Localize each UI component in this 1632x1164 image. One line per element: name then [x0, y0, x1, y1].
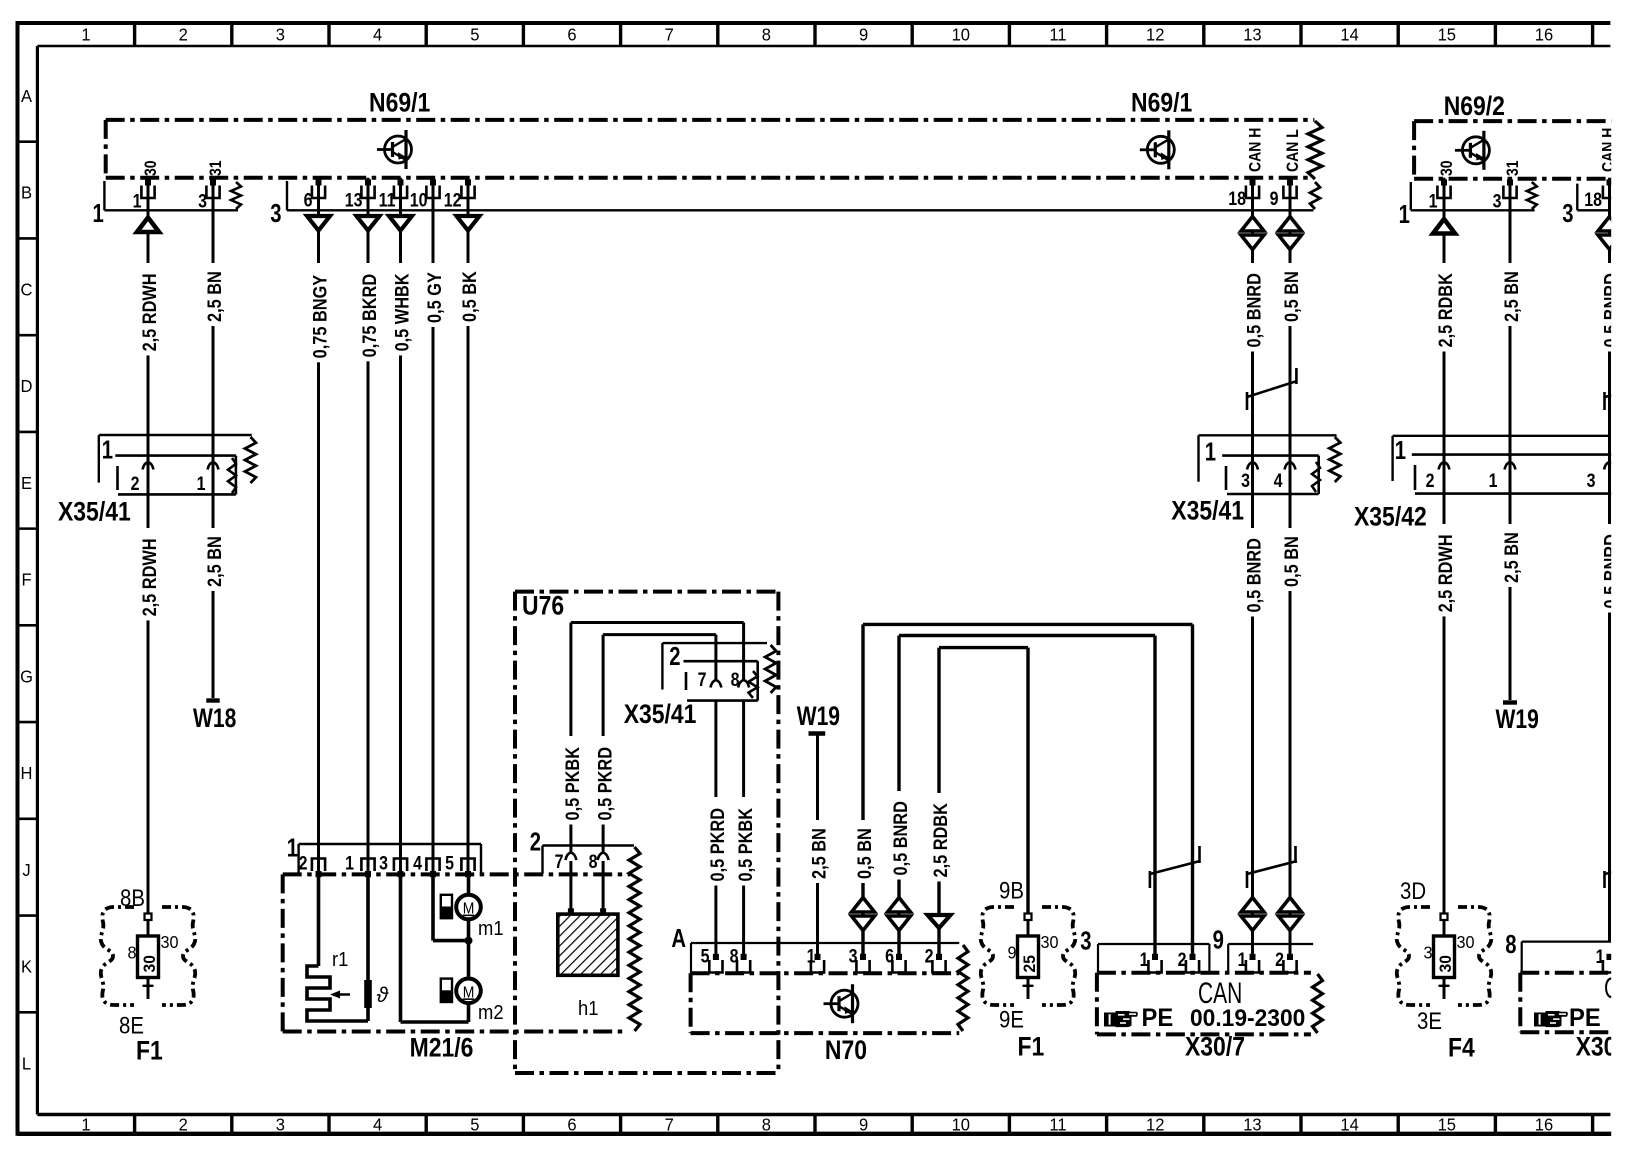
- svg-text:2,5 RDBK: 2,5 RDBK: [930, 803, 951, 878]
- ground W19 (right): [1503, 700, 1517, 704]
- fuse F1 25A: [1025, 914, 1032, 921]
- connector bracket 2 at U76 bottom: [543, 844, 635, 846]
- svg-text:11: 11: [1049, 24, 1066, 45]
- svg-text:3: 3: [1423, 943, 1432, 963]
- svg-text:30: 30: [1436, 955, 1455, 972]
- connector bracket 8 of X30 right: [1522, 940, 1611, 942]
- fuse F4 30A: [1441, 914, 1448, 921]
- direction arrow up on wire 30 of N69/2: [1433, 219, 1455, 234]
- svg-text:18: 18: [1228, 188, 1246, 210]
- fuse F1 30A: [145, 914, 152, 921]
- pin 2 contact of X35/42: [1439, 462, 1450, 470]
- svg-text:12: 12: [444, 189, 462, 211]
- svg-text:14: 14: [1340, 24, 1359, 45]
- svg-text:G: G: [20, 666, 33, 687]
- wire pin7 down to N70 pin5: [714, 701, 717, 960]
- svg-text:X30/7: X30/7: [1185, 1032, 1245, 1062]
- svg-text:F: F: [21, 569, 31, 590]
- svg-text:8: 8: [1505, 930, 1516, 959]
- zigzag at N70 right edge: [958, 945, 968, 1031]
- bidirectional arrows on 0,5 BNRD: [888, 898, 911, 913]
- zigzag at X35/41 right bracket: [1329, 437, 1340, 482]
- direction arrow down on 2,5 RDBK: [928, 915, 951, 928]
- svg-text:16: 16: [1535, 24, 1553, 45]
- svg-text:X35/42: X35/42: [1354, 502, 1427, 532]
- connector X35/41 (2) body: [684, 660, 758, 663]
- svg-text:0,5 WHBK: 0,5 WHBK: [392, 273, 413, 351]
- pin 2 socket of X30/7: [1186, 960, 1199, 973]
- svg-text:m1: m1: [478, 918, 504, 940]
- wire CAN L pin9 N69/1 to X30/7 (0,5 BN): [1289, 178, 1292, 960]
- svg-text:14: 14: [1340, 1114, 1359, 1135]
- svg-text:U76: U76: [522, 591, 564, 621]
- svg-text:D: D: [21, 376, 33, 397]
- transistor symbol in N69/1 right: [1140, 130, 1175, 169]
- svg-text:3: 3: [276, 1114, 285, 1135]
- wire pin11 N69/1 to M21/6 pin3 (0,5 WHBK): [399, 178, 402, 875]
- twisted pair mark on CAN wires below N69/1: [1246, 392, 1249, 410]
- resistor/shield zigzag at N69/1 right edge: [1308, 121, 1322, 179]
- page cut mask: [1611, 0, 1632, 1164]
- svg-text:31: 31: [207, 160, 225, 176]
- pin 3 socket of N70: [856, 960, 869, 973]
- svg-text:3: 3: [849, 945, 858, 967]
- pin 3 socket of N69/1: [206, 186, 219, 199]
- zigzag inside X35/41 right: [1312, 462, 1320, 492]
- bidirectional arrows on 0,5 BN: [852, 898, 875, 913]
- svg-text:J: J: [22, 859, 30, 880]
- svg-text:7: 7: [665, 24, 674, 45]
- svg-text:1: 1: [81, 24, 90, 45]
- svg-text:ϑ: ϑ: [377, 984, 390, 1007]
- svg-text:31: 31: [1504, 160, 1522, 176]
- twisted pair mark right edge (upper): [1603, 392, 1606, 410]
- pin 12 socket of N69/1: [461, 186, 474, 199]
- svg-text:15: 15: [1438, 24, 1456, 45]
- pin 3 socket of M21/6: [394, 859, 407, 872]
- X30/7 dash-dot box: [1097, 971, 1311, 975]
- connector bracket 1 of M21/6: [299, 843, 481, 845]
- wire pin5 to m1 top: [467, 871, 471, 895]
- svg-text:2,5 RDWH: 2,5 RDWH: [1435, 534, 1456, 612]
- svg-text:3E: 3E: [1417, 1007, 1442, 1034]
- svg-text:F4: F4: [1448, 1033, 1475, 1063]
- twisted pair mark on CAN wires to X30/7 conn 9: [1246, 871, 1249, 888]
- wire pin13 N69/1 to M21/6 pin1 (0,75 BKRD): [367, 178, 370, 875]
- direction arrow down pin 11: [389, 216, 412, 231]
- pin 18 socket of N69/2: [1603, 186, 1616, 199]
- wire down to U76 pin7 (0,5 PKBK): [569, 623, 572, 853]
- svg-text:5: 5: [445, 852, 454, 874]
- svg-text:h1: h1: [578, 998, 598, 1020]
- svg-text:1: 1: [1395, 436, 1406, 465]
- svg-text:30: 30: [1457, 932, 1475, 952]
- svg-text:3: 3: [1587, 470, 1596, 492]
- svg-text:9: 9: [1213, 925, 1224, 954]
- svg-text:2,5 BN: 2,5 BN: [204, 271, 225, 322]
- pin 6 socket of N70: [892, 960, 905, 973]
- svg-text:18: 18: [1584, 189, 1602, 211]
- pin 5 socket of M21/6: [461, 859, 474, 872]
- arrow pointing left (adjustment): [333, 993, 350, 996]
- transistor symbol in N69/2: [1455, 131, 1490, 170]
- svg-text:1: 1: [1429, 190, 1438, 212]
- connector bracket 3 of X30/7: [1098, 943, 1209, 945]
- svg-text:F1: F1: [136, 1036, 163, 1066]
- svg-text:N69/1: N69/1: [1131, 88, 1192, 118]
- connector X35/41 (left) body: [115, 454, 236, 457]
- pin 3 contact: [1247, 462, 1258, 470]
- svg-text:8: 8: [730, 945, 739, 967]
- svg-text:3: 3: [276, 24, 285, 45]
- connector X35/41 (2) bracket 2: [661, 643, 663, 689]
- svg-text:11: 11: [1049, 1114, 1066, 1135]
- svg-text:B: B: [21, 182, 32, 203]
- left ruler row dividers: [18, 140, 38, 143]
- motor unit M21/6 dash-dot box (shared with heater sub-box): [283, 872, 630, 876]
- svg-text:9: 9: [1270, 188, 1279, 210]
- pin 1 socket of N69/2: [1437, 186, 1450, 199]
- svg-text:1: 1: [133, 190, 142, 212]
- connector X35/42 body: [1412, 453, 1612, 456]
- svg-text:0,5 BN: 0,5 BN: [854, 828, 875, 879]
- svg-text:2: 2: [299, 852, 308, 874]
- svg-text:2: 2: [925, 945, 934, 967]
- svg-text:2: 2: [179, 24, 188, 45]
- wire pin12 N69/1 to M21/6 pin5 (0,5 BK): [467, 178, 470, 875]
- svg-text:9: 9: [1007, 943, 1016, 963]
- svg-text:4: 4: [413, 852, 422, 874]
- svg-text:13: 13: [345, 189, 363, 211]
- svg-text:9: 9: [859, 24, 868, 45]
- wire pin4 to junction between m1/m2: [431, 871, 435, 941]
- svg-text:1: 1: [197, 473, 206, 495]
- svg-text:0,5 BNRD: 0,5 BNRD: [1244, 273, 1265, 348]
- svg-text:M: M: [463, 901, 475, 918]
- motor m2: [456, 979, 481, 1004]
- connector bracket 9 of X30/7: [1228, 943, 1313, 945]
- svg-text:F1: F1: [1018, 1032, 1045, 1062]
- svg-text:M: M: [463, 985, 475, 1002]
- direction arrow down pin 13: [357, 216, 380, 231]
- direction arrow down pin 12: [457, 216, 480, 231]
- svg-text:7: 7: [698, 669, 707, 691]
- connector bracket A of N70: [691, 942, 959, 944]
- pin 13 socket of N69/1: [361, 186, 374, 199]
- svg-text:4: 4: [373, 24, 383, 45]
- zigzag at N69/2 bracket 1: [1527, 182, 1537, 209]
- svg-text:9: 9: [859, 1114, 868, 1135]
- svg-text:M21/6: M21/6: [410, 1033, 474, 1063]
- small zigzag at connector bracket right end: [1310, 182, 1320, 209]
- pin 2 socket of N70: [932, 960, 945, 973]
- transistor symbol in N69/1 left: [377, 130, 412, 169]
- svg-text:0,5 BK: 0,5 BK: [459, 271, 480, 322]
- pin 2 contact of X35/41: [143, 462, 154, 470]
- ground W18: [206, 698, 219, 702]
- zigzag inside X35/41 (2): [749, 671, 758, 698]
- wire down to X35/41 (2) pin8: [742, 623, 745, 681]
- bidirectional connector arrows CAN L: [1279, 217, 1302, 232]
- wire pin1 N69/1 down to fuse F1 (2,5 RDWH): [147, 178, 150, 914]
- svg-text:0,5 PKRD: 0,5 PKRD: [707, 808, 728, 882]
- svg-text:1: 1: [102, 435, 113, 464]
- svg-text:5: 5: [470, 1114, 479, 1135]
- pin 5 socket of N70: [709, 960, 722, 973]
- tall zigzag right of h1: [629, 847, 640, 1031]
- pin 4 socket of M21/6: [426, 859, 439, 872]
- pin 7 contact of U76: [565, 853, 576, 861]
- svg-text:A: A: [671, 924, 686, 953]
- svg-text:3D: 3D: [1400, 877, 1426, 904]
- twisted pair mark right edge (lower): [1603, 871, 1606, 888]
- control module N69/1 (dash-dot box): [106, 118, 1315, 122]
- svg-text:11: 11: [379, 189, 396, 211]
- svg-text:5: 5: [470, 24, 479, 45]
- svg-text:X35/41: X35/41: [58, 497, 131, 527]
- svg-text:1: 1: [1205, 437, 1216, 466]
- svg-text:2: 2: [530, 827, 541, 856]
- svg-text:0,5 PKBK: 0,5 PKBK: [735, 808, 756, 882]
- svg-text:1: 1: [1238, 949, 1247, 971]
- svg-text:2: 2: [1178, 949, 1187, 971]
- svg-text:L: L: [22, 1053, 32, 1074]
- nested connection wires from N70 to X30/7 and F1: [863, 623, 1193, 626]
- svg-text:W19: W19: [1496, 705, 1539, 735]
- pin 3 socket of N69/2: [1503, 186, 1516, 199]
- pin 1 socket of M21/6: [361, 859, 374, 872]
- svg-text:6: 6: [567, 24, 576, 45]
- svg-text:6: 6: [567, 1114, 576, 1135]
- wire CAN H pin18 N69/1 to X30/7 (0,5 BNRD): [1251, 178, 1254, 960]
- connector X35/41 (right) body: [1222, 454, 1319, 457]
- svg-text:2: 2: [179, 1114, 188, 1135]
- wire pin8 down to N70 pin8: [742, 701, 745, 960]
- zigzag at X30/7 right edge: [1313, 974, 1323, 1033]
- wire pin3 to m2 bottom: [399, 871, 403, 1022]
- svg-text:N69/2: N69/2: [1444, 91, 1505, 121]
- direction arrow down pin 6: [307, 216, 330, 231]
- junction node: [465, 937, 473, 945]
- svg-text:1: 1: [81, 1114, 90, 1135]
- svg-text:E: E: [21, 472, 32, 493]
- zigzag inside X35/41 left: [228, 458, 236, 493]
- pin 3 contact of X35/42: [1604, 462, 1615, 470]
- pin 7 contact of X35/41 (2): [710, 680, 721, 688]
- svg-text:30: 30: [161, 932, 179, 952]
- svg-text:13: 13: [1243, 24, 1261, 45]
- wire down to U76 pin8 (0,5 PKRD): [602, 635, 605, 852]
- svg-text:12: 12: [1146, 24, 1164, 45]
- svg-text:1: 1: [345, 852, 354, 874]
- top ruler column dividers: [133, 23, 136, 46]
- svg-text:H: H: [21, 762, 33, 783]
- svg-text:8: 8: [762, 1114, 771, 1135]
- svg-text:0,5 GY: 0,5 GY: [424, 272, 445, 323]
- svg-text:2: 2: [1275, 949, 1284, 971]
- connector bracket 3 of N69/1 (full width): [286, 181, 288, 210]
- svg-text:m2: m2: [478, 1002, 504, 1024]
- svg-text:10: 10: [952, 1114, 970, 1135]
- svg-text:10: 10: [410, 189, 428, 211]
- svg-text:2: 2: [669, 642, 680, 671]
- svg-text:2,5 BN: 2,5 BN: [809, 828, 830, 879]
- connector X35/41 (right) bracket: [1199, 434, 1337, 436]
- svg-text:2,5 RDWH: 2,5 RDWH: [139, 538, 160, 616]
- pin 1 socket of N70: [811, 960, 824, 973]
- pin 2 socket of M21/6: [312, 859, 325, 872]
- svg-text:2,5 BN: 2,5 BN: [1501, 532, 1522, 583]
- motor m1: [456, 895, 481, 920]
- svg-text:8B: 8B: [120, 884, 145, 911]
- svg-text:7: 7: [555, 851, 564, 873]
- svg-text:1: 1: [1596, 946, 1605, 968]
- svg-text:N70: N70: [825, 1035, 867, 1065]
- svg-text:00.19-2300: 00.19-2300: [1190, 1004, 1305, 1031]
- pin 1 contact of X35/41: [208, 462, 219, 470]
- wire pin10 N69/1 to M21/6 pin4 (0,5 GY): [432, 178, 435, 875]
- svg-text:4: 4: [1274, 470, 1283, 492]
- svg-text:X35/41: X35/41: [624, 699, 697, 729]
- pin 9 socket of N69/1: [1283, 186, 1296, 199]
- svg-text:1: 1: [807, 945, 816, 967]
- svg-text:3: 3: [1080, 926, 1091, 955]
- brush symbol of m1: [441, 895, 452, 918]
- pin 8 contact of U76: [598, 853, 609, 861]
- svg-text:12: 12: [1146, 1114, 1164, 1135]
- transistor symbol in N70: [824, 984, 859, 1023]
- svg-text:1: 1: [1399, 200, 1410, 229]
- fuse holder brackets F1 left: [101, 907, 196, 1005]
- wire to h1: [569, 861, 572, 914]
- svg-text:3: 3: [379, 852, 388, 874]
- svg-text:2,5 RDBK: 2,5 RDBK: [1435, 273, 1456, 348]
- pin 8 contact of X35/41 (2): [738, 680, 749, 688]
- svg-text:30: 30: [142, 160, 160, 176]
- svg-text:15: 15: [1438, 1114, 1456, 1135]
- svg-text:PE: PE: [1569, 1004, 1601, 1032]
- fuse holder brackets F4: [1397, 907, 1492, 1005]
- svg-text:30: 30: [140, 955, 159, 972]
- ground W19 (left): [809, 731, 826, 735]
- svg-text:W18: W18: [193, 704, 236, 734]
- pin 18 socket of N69/1: [1246, 186, 1259, 199]
- temperature sensor element (theta): [366, 871, 370, 982]
- svg-text:1: 1: [1489, 470, 1498, 492]
- pin 6 socket of N69/1: [312, 186, 325, 199]
- svg-text:2,5 BN: 2,5 BN: [204, 536, 225, 587]
- r1 series resistor heater comb: [317, 871, 321, 966]
- svg-text:2,5 BN: 2,5 BN: [1501, 271, 1522, 322]
- svg-text:10: 10: [952, 24, 970, 45]
- svg-text:C: C: [21, 279, 33, 300]
- wire U76 pin8 to X35/41 pin7 (horizontal): [603, 633, 716, 636]
- zigzag at X35/41 (2) bracket: [765, 645, 776, 693]
- svg-text:8: 8: [589, 851, 598, 873]
- svg-text:0,5 PKBK: 0,5 PKBK: [562, 747, 583, 821]
- bidirectional arrows CAN L lower: [1279, 898, 1302, 913]
- svg-text:0,5 BNRD: 0,5 BNRD: [1244, 538, 1265, 613]
- wires of N69/2: [1443, 178, 1446, 914]
- svg-text:3: 3: [1562, 199, 1573, 228]
- pointing hand symbol: [1104, 1011, 1138, 1027]
- svg-text:K: K: [21, 956, 32, 977]
- wire down to X35/41 (2) pin7: [714, 635, 717, 680]
- svg-text:6: 6: [885, 945, 894, 967]
- bidirectional arrows CAN H lower: [1241, 898, 1264, 913]
- pin 1 socket of X30/7: [1246, 960, 1259, 973]
- svg-text:0,5 BN: 0,5 BN: [1281, 271, 1302, 322]
- connector X35/42 bracket: [1393, 435, 1611, 437]
- pin 4 contact: [1285, 462, 1296, 470]
- svg-text:1: 1: [93, 199, 104, 228]
- connector X35/41 (left) bracket: [99, 434, 252, 436]
- bidirectional connector arrows CAN H: [1241, 217, 1264, 232]
- svg-text:3: 3: [1241, 470, 1250, 492]
- svg-text:9B: 9B: [999, 877, 1024, 904]
- wire pin6 N69/1 to M21/6 pin2 (0,75 BNGY): [317, 178, 320, 875]
- svg-text:0,5 BN: 0,5 BN: [1281, 536, 1302, 587]
- auxiliary heater unit U76 dash-dot box: [515, 590, 778, 594]
- svg-text:8: 8: [127, 943, 136, 963]
- svg-text:7: 7: [665, 1114, 674, 1135]
- svg-text:30: 30: [1041, 932, 1059, 952]
- svg-text:25: 25: [1020, 955, 1039, 972]
- svg-text:3: 3: [1493, 190, 1502, 212]
- svg-text:2: 2: [1426, 470, 1435, 492]
- fuse holder brackets F1 right: [981, 907, 1076, 1005]
- connector bracket 3 of N69/2: [1576, 184, 1578, 211]
- svg-text:0,5 PKRD: 0,5 PKRD: [594, 747, 615, 821]
- svg-text:CAN L: CAN L: [1284, 129, 1302, 172]
- svg-text:16: 16: [1535, 1114, 1553, 1135]
- pin 1 contact of X35/42: [1505, 462, 1516, 470]
- zigzag at X35/41 left bracket: [245, 437, 256, 483]
- svg-text:9E: 9E: [999, 1006, 1024, 1033]
- drawing frame border: [18, 21, 1611, 25]
- terminal tab of h1 pin7: [568, 908, 574, 914]
- twisted pair mark on wires to X30/7 conn 3: [1149, 871, 1152, 888]
- svg-text:r1: r1: [332, 949, 348, 971]
- brush symbol of m2: [441, 979, 452, 1002]
- svg-text:0,75 BKRD: 0,75 BKRD: [359, 274, 380, 358]
- svg-text:8: 8: [762, 24, 771, 45]
- svg-text:PE: PE: [1142, 1004, 1174, 1032]
- terminal tab of h1 pin8: [600, 908, 606, 914]
- wire U76 pin7 to X35/41 pin8 (horizontal): [571, 621, 744, 624]
- svg-text:CAN H: CAN H: [1247, 128, 1265, 172]
- svg-text:30: 30: [1438, 160, 1456, 176]
- pin 1 socket of N69/1: [141, 186, 154, 199]
- svg-text:0,75 BNGY: 0,75 BNGY: [310, 275, 331, 359]
- svg-text:8: 8: [731, 669, 740, 691]
- wire to h1: [602, 861, 605, 914]
- svg-text:6: 6: [304, 189, 313, 211]
- svg-text:A: A: [21, 85, 32, 106]
- wire W19 to N70 pin1: [816, 735, 819, 960]
- direction arrow up on wire 30: [137, 218, 159, 233]
- svg-text:0,5 BNRD: 0,5 BNRD: [890, 801, 911, 876]
- connector bracket 1 of N69/2: [1410, 182, 1412, 210]
- pin 1 socket of X30/7: [1148, 960, 1161, 973]
- zigzag at bracket 1 end: [231, 182, 241, 209]
- pin 11 socket of N69/1: [394, 186, 407, 199]
- svg-text:1: 1: [287, 833, 298, 862]
- svg-text:N69/1: N69/1: [369, 88, 430, 118]
- connector bracket 1 of N69/1: [103, 181, 105, 210]
- svg-text:2,5 RDWH: 2,5 RDWH: [139, 273, 160, 351]
- pin 1 socket of X30 right: [1603, 960, 1616, 973]
